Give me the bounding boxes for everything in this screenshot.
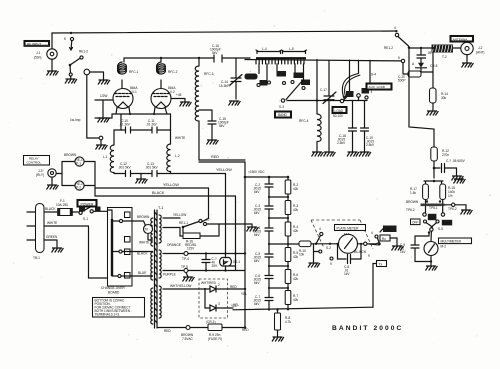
svg-text:BLUE: BLUE [138, 271, 146, 275]
svg-text:115V: 115V [187, 247, 195, 251]
svg-text:YELLOW: YELLOW [216, 168, 232, 172]
svg-text:RE1-2: RE1-2 [79, 50, 88, 54]
svg-text:P-1: P-1 [76, 162, 81, 166]
svg-text:WHITE: WHITE [139, 241, 149, 245]
svg-text:1.5k: 1.5k [410, 191, 416, 195]
svg-text:(RLY): (RLY) [36, 173, 44, 177]
svg-text:PURPLE: PURPLE [163, 273, 176, 277]
svg-text:LOAD: LOAD [335, 109, 344, 113]
svg-text:RFC-4: RFC-4 [299, 119, 309, 123]
svg-text:CHANGE-OVER: CHANGE-OVER [101, 286, 125, 290]
svg-text:6kV: 6kV [254, 302, 260, 306]
svg-text:T-1: T-1 [158, 206, 164, 210]
svg-text:BANDIT 2000C: BANDIT 2000C [332, 325, 403, 332]
svg-text:42k: 42k [293, 277, 299, 281]
svg-text:YEL: YEL [241, 292, 247, 296]
svg-text:30k: 30k [441, 96, 447, 100]
svg-text:S-2: S-2 [326, 246, 331, 250]
svg-text:50-100: 50-100 [333, 114, 343, 118]
svg-text:DS-1: DS-1 [233, 260, 240, 264]
svg-text:1%: 1% [448, 194, 453, 198]
svg-text:BROWN: BROWN [137, 215, 150, 219]
svg-text:9: 9 [330, 262, 332, 266]
svg-text:RED: RED [242, 328, 249, 332]
svg-text:S-5: S-5 [438, 227, 443, 231]
svg-text:RED: RED [211, 155, 219, 159]
svg-text:CR-5: CR-5 [430, 64, 438, 68]
svg-text:TP6-2: TP6-2 [448, 207, 457, 211]
svg-text:1w-Imp: 1w-Imp [70, 118, 81, 122]
svg-text:S-1: S-1 [83, 217, 88, 221]
svg-text:(CR-1): (CR-1) [206, 320, 216, 324]
svg-text:ORANGE: ORANGE [167, 243, 181, 247]
svg-text:BROWN: BROWN [406, 200, 419, 204]
svg-text:RFC-2: RFC-2 [168, 70, 178, 74]
svg-text:C-17: C-17 [320, 88, 327, 92]
svg-text:PLATE METER: PLATE METER [337, 226, 360, 230]
svg-text:RFC-3: RFC-3 [204, 72, 214, 76]
svg-text:5kV: 5kV [219, 124, 225, 128]
svg-text:BLACK: BLACK [45, 207, 56, 211]
svg-text:V-2: V-2 [170, 90, 175, 94]
svg-text:270n: 270n [442, 153, 449, 157]
svg-text:42k: 42k [293, 298, 299, 302]
svg-text:6kV: 6kV [254, 281, 260, 285]
svg-text:WHT/RED: WHT/RED [201, 281, 217, 285]
svg-text:42k: 42k [293, 187, 299, 191]
svg-text:6kV: 6kV [254, 190, 260, 194]
svg-text:BLACK: BLACK [137, 252, 148, 256]
svg-text:V-1: V-1 [132, 90, 137, 94]
svg-text:WHITE: WHITE [47, 221, 57, 225]
svg-text:A: A [412, 62, 415, 66]
svg-text:1/2W: 1/2W [100, 94, 107, 98]
svg-text:42k: 42k [293, 255, 299, 259]
svg-text:.001 5kV: .001 5kV [118, 166, 131, 170]
svg-text:Tri: Tri [145, 228, 149, 232]
svg-text:.01 2kV: .01 2kV [146, 123, 158, 127]
svg-text:10k: 10k [299, 253, 305, 257]
svg-text:Tx: Tx [379, 262, 383, 266]
svg-text:4.7k: 4.7k [285, 320, 291, 324]
svg-text:TB-1: TB-1 [33, 256, 40, 260]
svg-text:42k: 42k [293, 208, 299, 212]
svg-text:25V: 25V [212, 264, 219, 268]
svg-text:=1500 VDC: =1500 VDC [248, 170, 265, 174]
svg-text:S-3: S-3 [279, 105, 284, 109]
svg-text:1kV: 1kV [344, 272, 350, 276]
svg-text:RED: RED [164, 329, 171, 333]
svg-text:L-1: L-1 [103, 155, 108, 159]
svg-text:P-2: P-2 [76, 186, 81, 190]
svg-text:POWER: POWER [81, 202, 94, 206]
svg-text:(50n): (50n) [34, 56, 41, 60]
svg-text:9: 9 [368, 254, 370, 258]
svg-text:5kV: 5kV [212, 51, 218, 55]
svg-text:4: 4 [394, 26, 396, 30]
svg-text:5: 5 [398, 56, 400, 60]
svg-text:YELLOW: YELLOW [173, 213, 186, 217]
svg-text:OFF: OFF [412, 221, 418, 225]
svg-text:TP-5: TP-5 [181, 265, 188, 269]
svg-text:YEL: YEL [233, 303, 239, 307]
svg-text:42k: 42k [293, 229, 299, 233]
svg-text:J-2: J-2 [478, 46, 483, 50]
svg-text:15-3kPF: 15-3kPF [219, 84, 231, 88]
svg-text:BROWN: BROWN [64, 153, 77, 157]
svg-text:MULTIMETER: MULTIMETER [441, 239, 462, 243]
svg-text:BAND: BAND [278, 113, 288, 117]
svg-text:TP6-2: TP6-2 [406, 208, 415, 212]
svg-text:S-4: S-4 [371, 73, 376, 77]
svg-text:BLACK: BLACK [152, 191, 165, 195]
svg-text:AUX. LOAD: AUX. LOAD [369, 85, 386, 89]
svg-text:CONTROL: CONTROL [27, 161, 42, 165]
svg-text:BLACK: BLACK [354, 250, 367, 254]
svg-text:C-? .05 600V: C-? .05 600V [446, 159, 466, 163]
svg-text:T-2: T-2 [442, 55, 447, 59]
svg-text:L-5: L-5 [289, 47, 294, 51]
svg-text:.01 2kV: .01 2kV [119, 123, 131, 127]
svg-text:M-2: M-2 [441, 245, 447, 249]
svg-text:10A-250: 10A-250 [56, 203, 68, 207]
svg-text:Rx: Rx [382, 237, 386, 241]
svg-text:.05: .05 [427, 51, 432, 55]
svg-text:.001 5kV: .001 5kV [145, 166, 158, 170]
svg-text:RE1-1: RE1-1 [179, 221, 188, 225]
svg-text:ANTENNA: ANTENNA [453, 37, 469, 41]
svg-text:GRID: GRID [443, 221, 452, 225]
svg-text:TERMINALS 2+3.: TERMINALS 2+3. [95, 313, 121, 317]
svg-text:4: 4 [371, 231, 373, 235]
svg-text:YELLOW: YELLOW [163, 183, 179, 187]
svg-text:L-2: L-2 [175, 154, 180, 158]
svg-text:(FUSE R): (FUSE R) [208, 337, 222, 341]
svg-text:WHT/YELLOW: WHT/YELLOW [170, 284, 191, 288]
svg-text:TP-4: TP-4 [182, 257, 189, 261]
svg-text:6kV: 6kV [254, 259, 260, 263]
svg-text:500P: 500P [398, 79, 405, 83]
svg-text:RF INPUT: RF INPUT [27, 42, 41, 46]
svg-text:RFC-1: RFC-1 [129, 70, 139, 74]
svg-text:WHITE: WHITE [175, 136, 185, 140]
svg-text:BOARD: BOARD [108, 291, 120, 295]
svg-text:TP5-1: TP5-1 [429, 206, 438, 210]
svg-text:2.5kV: 2.5kV [366, 143, 375, 147]
svg-text:3: 3 [218, 302, 220, 306]
svg-text:2.5kV: 2.5kV [337, 141, 346, 145]
svg-text:7.5VAC: 7.5VAC [182, 337, 193, 341]
svg-text:4: 4 [319, 227, 321, 231]
svg-text:J-1: J-1 [36, 51, 41, 55]
svg-text:+45: +45 [176, 93, 182, 97]
svg-text:2: 2 [218, 283, 220, 287]
svg-text:6kV: 6kV [254, 233, 260, 237]
svg-text:6kV: 6kV [254, 211, 260, 215]
svg-text:4: 4 [371, 90, 373, 94]
svg-text:K: K [64, 37, 67, 41]
svg-text:(ANT): (ANT) [476, 51, 485, 55]
svg-text:RE1-2: RE1-2 [384, 46, 393, 50]
svg-text:L-4: L-4 [262, 47, 267, 51]
svg-text:GREEN: GREEN [46, 235, 58, 239]
